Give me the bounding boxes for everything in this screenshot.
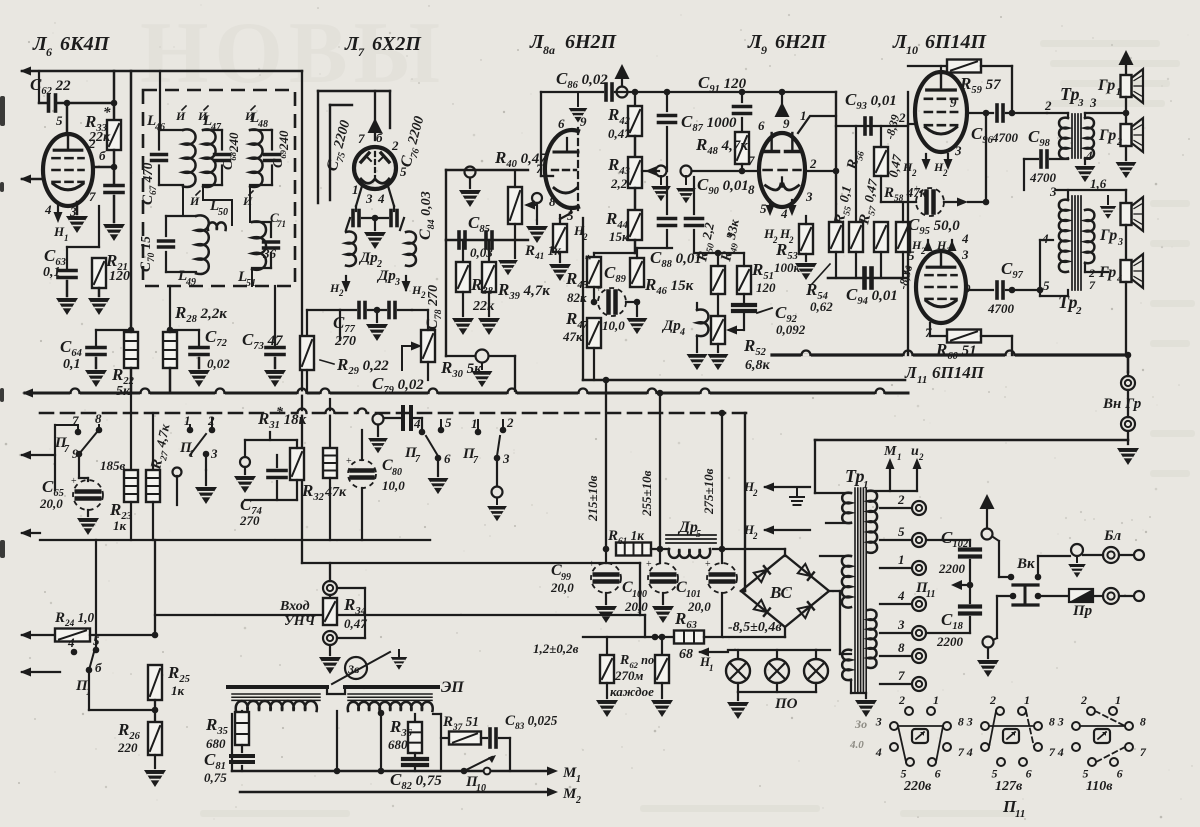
svg-text:8: 8 [549, 194, 556, 209]
svg-text:20,0: 20,0 [687, 599, 711, 614]
svg-text:0,092: 0,092 [776, 322, 806, 337]
svg-text:3: 3 [897, 617, 905, 632]
svg-text:R46 15к: R46 15к [644, 275, 694, 297]
svg-text:36: 36 [262, 246, 277, 261]
svg-text:4: 4 [1057, 745, 1064, 759]
svg-text:6П14П: 6П14П [925, 31, 988, 53]
svg-text:110в: 110в [1086, 779, 1113, 794]
svg-text:Л: Л [904, 363, 918, 382]
svg-text:*: * [276, 405, 284, 420]
svg-text:2: 2 [920, 246, 926, 256]
svg-text:2: 2 [575, 795, 581, 806]
svg-text:R48 4,7к: R48 4,7к [695, 135, 748, 157]
svg-text:22к: 22к [88, 130, 111, 145]
svg-text:46: 46 [154, 122, 165, 133]
svg-text:1: 1 [352, 182, 359, 197]
svg-text:1: 1 [1115, 693, 1121, 707]
svg-text:3: 3 [1117, 237, 1123, 248]
svg-text:Бл: Бл [1103, 528, 1122, 544]
svg-text:2: 2 [898, 110, 906, 125]
svg-text:7: 7 [536, 161, 543, 176]
svg-text:Зо: Зо [854, 717, 867, 731]
svg-text:2: 2 [1080, 693, 1087, 707]
svg-text:8а: 8а [543, 43, 555, 57]
svg-text:И: И [242, 194, 253, 208]
svg-text:240: 240 [276, 130, 291, 151]
svg-text:Гр: Гр [1098, 264, 1116, 281]
svg-text:С94 0,01: С94 0,01 [846, 285, 898, 307]
svg-text:5: 5 [908, 248, 915, 263]
svg-text:1к: 1к [171, 683, 185, 698]
svg-text:4: 4 [961, 231, 969, 246]
svg-text:Др: Др [661, 318, 681, 334]
svg-text:Вк: Вк [1016, 556, 1035, 572]
svg-text:2: 2 [506, 415, 514, 430]
svg-text:4: 4 [780, 206, 788, 221]
svg-text:8: 8 [1140, 715, 1146, 729]
svg-text:2: 2 [1075, 305, 1082, 317]
svg-text:680: 680 [388, 737, 408, 752]
svg-text:7: 7 [958, 745, 965, 759]
svg-text:5: 5 [760, 201, 767, 216]
svg-text:8: 8 [958, 715, 964, 729]
svg-text:7: 7 [1089, 278, 1096, 292]
svg-text:4700: 4700 [991, 130, 1019, 145]
svg-text:80: 80 [392, 467, 402, 478]
svg-text:1: 1 [933, 693, 939, 707]
svg-text:И: И [175, 109, 186, 123]
svg-text:каждое: каждое [610, 684, 654, 699]
svg-text:4700: 4700 [1029, 170, 1057, 185]
svg-text:2: 2 [788, 235, 794, 245]
svg-text:1: 1 [471, 416, 478, 431]
svg-text:7: 7 [1140, 745, 1147, 759]
svg-text:10: 10 [476, 783, 486, 794]
svg-text:0,02: 0,02 [207, 356, 230, 371]
svg-text:б: б [95, 660, 102, 675]
svg-text:4.0: 4.0 [849, 739, 864, 751]
svg-text:220в: 220в [903, 779, 932, 794]
svg-text:б: б [376, 130, 383, 145]
svg-text:Тр: Тр [1060, 84, 1080, 104]
svg-text:3: 3 [875, 715, 882, 729]
svg-text:6К4П: 6К4П [60, 33, 111, 55]
svg-text:6Н2П: 6Н2П [565, 31, 618, 53]
svg-text:2: 2 [918, 452, 924, 462]
svg-text:-8,5±0,4в: -8,5±0,4в [728, 620, 782, 635]
svg-text:Др: Др [358, 250, 378, 266]
svg-text:6: 6 [758, 118, 765, 133]
svg-text:1: 1 [1116, 87, 1121, 98]
svg-text:ВС: ВС [769, 583, 793, 602]
svg-text:+: + [71, 476, 77, 487]
svg-text:9: 9 [950, 95, 957, 110]
svg-text:УНЧ: УНЧ [284, 614, 316, 629]
svg-text:6Х2П: 6Х2П [372, 33, 422, 55]
svg-text:6: 6 [558, 116, 565, 131]
svg-text:680: 680 [206, 736, 226, 751]
svg-text:Тр: Тр [845, 466, 865, 486]
svg-text:R29 0,22: R29 0,22 [336, 355, 389, 377]
svg-text:215±10в: 215±10в [585, 475, 600, 522]
svg-text:М: М [562, 786, 577, 802]
svg-text:*: * [584, 253, 592, 268]
svg-text:8: 8 [748, 182, 755, 197]
svg-text:Вн Гр: Вн Гр [1102, 396, 1142, 412]
svg-text:68: 68 [679, 647, 693, 662]
svg-text:С90 0,01: С90 0,01 [697, 175, 749, 197]
svg-text:120: 120 [109, 269, 130, 284]
svg-text:6П14П: 6П14П [932, 363, 985, 382]
svg-text:4: 4 [966, 745, 973, 759]
svg-text:127в: 127в [995, 779, 1023, 794]
svg-text:С86 0,02: С86 0,02 [556, 69, 608, 91]
svg-text:4: 4 [413, 416, 421, 431]
svg-text:6: 6 [444, 451, 451, 466]
svg-text:3: 3 [1077, 97, 1084, 109]
svg-text:10,0: 10,0 [602, 318, 625, 333]
svg-text:4: 4 [875, 745, 882, 759]
svg-text:6: 6 [1026, 767, 1032, 781]
svg-text:+: + [346, 456, 352, 467]
svg-text:2: 2 [1116, 137, 1122, 148]
svg-text:270: 270 [334, 334, 356, 349]
svg-text:0,47: 0,47 [608, 126, 631, 141]
svg-text:275±10в: 275±10в [701, 468, 716, 515]
svg-text:4: 4 [679, 327, 685, 338]
svg-text:100к: 100к [774, 260, 801, 275]
svg-text:71: 71 [277, 219, 286, 229]
svg-text:Гр: Гр [1097, 77, 1115, 94]
svg-text:270: 270 [239, 513, 260, 528]
svg-text:R28 2,2к: R28 2,2к [174, 303, 227, 325]
svg-text:М: М [562, 765, 577, 781]
svg-text:0,1: 0,1 [63, 357, 81, 372]
svg-text:1: 1 [189, 449, 194, 460]
svg-text:С95 50,0: С95 50,0 [908, 215, 960, 237]
svg-text:47к: 47к [562, 329, 583, 344]
svg-text:4: 4 [897, 588, 905, 603]
svg-text:1,2±0,2в: 1,2±0,2в [533, 641, 579, 656]
svg-text:185в: 185в [100, 458, 126, 473]
svg-text:3: 3 [805, 189, 813, 204]
svg-text:6: 6 [935, 767, 941, 781]
svg-text:49: 49 [185, 277, 196, 288]
svg-text:5: 5 [1043, 278, 1050, 293]
svg-text:4: 4 [44, 202, 52, 217]
svg-text:ПО: ПО [774, 696, 798, 712]
svg-text:3: 3 [394, 277, 400, 288]
svg-text:50: 50 [218, 207, 228, 218]
svg-text:82к: 82к [567, 290, 587, 305]
svg-text:1: 1 [898, 552, 905, 567]
svg-text:3: 3 [1057, 715, 1064, 729]
svg-text:1: 1 [576, 774, 581, 785]
svg-text:И: И [244, 109, 255, 123]
svg-text:270м: 270м [614, 668, 644, 683]
svg-text:4: 4 [377, 191, 385, 206]
svg-text:47к: 47к [324, 485, 347, 500]
svg-text:2: 2 [752, 531, 758, 541]
svg-text:8: 8 [1049, 715, 1055, 729]
svg-text:и: и [911, 444, 919, 459]
svg-text:11: 11 [917, 374, 927, 386]
svg-text:1,6: 1,6 [1090, 176, 1107, 191]
svg-text:С82 0,75: С82 0,75 [390, 770, 442, 792]
svg-text:+: + [646, 559, 652, 570]
svg-text:5: 5 [56, 113, 63, 128]
svg-text:3: 3 [365, 191, 373, 206]
svg-text:5: 5 [93, 633, 100, 648]
svg-text:2: 2 [911, 168, 917, 178]
svg-text:8: 8 [95, 411, 102, 426]
svg-text:4: 4 [67, 635, 75, 650]
svg-text:0,47: 0,47 [344, 616, 367, 631]
svg-text:9: 9 [964, 281, 971, 296]
svg-text:И: И [189, 194, 200, 208]
svg-text:7: 7 [748, 153, 755, 168]
svg-text:7: 7 [358, 45, 365, 59]
svg-text:1: 1 [897, 452, 902, 462]
svg-text:2: 2 [752, 488, 758, 498]
svg-text:3: 3 [961, 247, 969, 262]
svg-text:*: * [103, 105, 111, 121]
svg-text:3: 3 [954, 143, 962, 158]
svg-text:7: 7 [898, 668, 905, 683]
svg-text:15к: 15к [609, 229, 629, 244]
svg-text:3: 3 [502, 451, 510, 466]
svg-text:7: 7 [89, 189, 96, 204]
svg-text:7: 7 [358, 131, 365, 146]
svg-text:2: 2 [809, 156, 817, 171]
svg-text:20,0: 20,0 [39, 496, 63, 511]
svg-text:2200: 2200 [938, 561, 966, 576]
svg-text:С79 0,02: С79 0,02 [372, 374, 424, 396]
svg-text:2200: 2200 [936, 634, 964, 649]
svg-text:11: 11 [1015, 808, 1025, 820]
svg-text:2: 2 [338, 288, 344, 298]
svg-text:2: 2 [391, 138, 399, 153]
svg-text:11: 11 [926, 589, 935, 600]
svg-text:1: 1 [709, 663, 714, 673]
svg-text:Др: Др [376, 268, 396, 284]
svg-text:10: 10 [906, 43, 918, 57]
svg-text:1: 1 [1024, 693, 1030, 707]
svg-text:255±10в: 255±10в [639, 470, 654, 517]
svg-text:20,0: 20,0 [550, 580, 574, 595]
svg-text:0,75: 0,75 [204, 770, 227, 785]
svg-text:С87 1000: С87 1000 [681, 112, 737, 134]
svg-text:2: 2 [1044, 98, 1052, 113]
svg-text:6: 6 [1117, 767, 1123, 781]
svg-text:ЭП: ЭП [441, 679, 464, 696]
svg-text:2: 2 [897, 492, 905, 507]
svg-text:48: 48 [257, 119, 268, 130]
svg-text:0,62: 0,62 [810, 299, 833, 314]
svg-text:2: 2 [945, 246, 951, 256]
svg-text:10,0: 10,0 [382, 478, 405, 493]
svg-text:Вход: Вход [279, 599, 310, 614]
svg-text:3: 3 [1089, 95, 1097, 110]
svg-text:120: 120 [756, 280, 776, 295]
svg-text:2,2: 2,2 [610, 176, 628, 191]
svg-text:6,8к: 6,8к [745, 358, 771, 373]
svg-text:Гр: Гр [1098, 127, 1116, 144]
svg-text:б: б [99, 148, 106, 163]
svg-text:3: 3 [210, 446, 218, 461]
svg-text:+: + [914, 184, 920, 195]
svg-text:+: + [589, 559, 595, 570]
svg-text:1к: 1к [113, 518, 127, 533]
svg-text:9: 9 [580, 114, 587, 129]
svg-text:47: 47 [210, 122, 222, 133]
svg-text:1: 1 [64, 233, 69, 243]
svg-text:И: И [197, 109, 208, 123]
svg-text:+: + [705, 559, 711, 570]
svg-text:20,0: 20,0 [624, 599, 648, 614]
svg-text:5: 5 [898, 524, 905, 539]
svg-text:М: М [883, 444, 897, 459]
svg-text:С91 120: С91 120 [698, 73, 747, 95]
svg-text:240: 240 [226, 132, 241, 153]
svg-text:22к: 22к [472, 299, 495, 314]
svg-text:5: 5 [445, 415, 452, 430]
svg-text:3: 3 [966, 715, 973, 729]
svg-text:2: 2 [989, 693, 996, 707]
svg-text:4: 4 [1041, 231, 1049, 246]
svg-text:8: 8 [898, 640, 905, 655]
svg-text:7: 7 [1049, 745, 1056, 759]
svg-text:Пр: Пр [1072, 603, 1093, 619]
svg-text:220: 220 [117, 740, 138, 755]
svg-text:2: 2 [898, 693, 905, 707]
svg-text:9: 9 [761, 43, 767, 57]
svg-text:Гр: Гр [1099, 227, 1117, 244]
svg-text:+: + [596, 284, 602, 295]
svg-text:С93 0,01: С93 0,01 [845, 90, 897, 112]
svg-text:2: 2 [942, 168, 948, 178]
svg-text:6: 6 [46, 45, 52, 59]
svg-text:4700: 4700 [987, 301, 1015, 316]
svg-text:Др: Др [677, 519, 698, 536]
svg-text:4: 4 [1116, 274, 1122, 285]
svg-text:R39 4,7к: R39 4,7к [497, 280, 550, 302]
svg-text:3: 3 [1049, 184, 1057, 199]
svg-text:6Н2П: 6Н2П [775, 31, 828, 53]
svg-text:9: 9 [783, 116, 790, 131]
